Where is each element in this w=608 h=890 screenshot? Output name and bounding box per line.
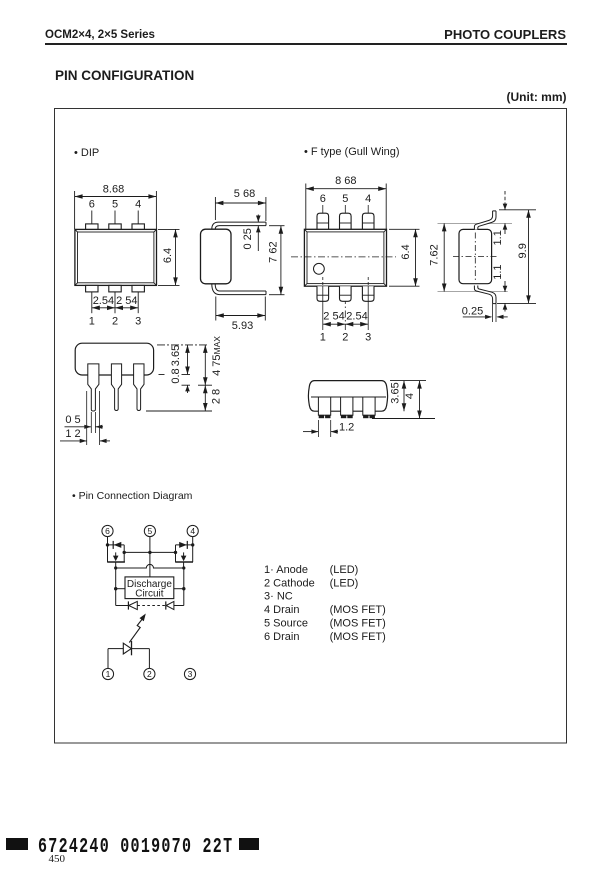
DIP profile pins [88, 364, 144, 411]
svg-text:5: 5 [148, 526, 153, 536]
ext lines behind leads (F side) [438, 223, 513, 291]
svg-text:• F type (Gull Wing): • F type (Gull Wing) [304, 146, 400, 158]
svg-text:1: 1 [320, 331, 326, 343]
F profile pins [318, 397, 375, 415]
svg-text:(MOS FET): (MOS FET) [330, 604, 386, 616]
svg-text:4 Drain: 4 Drain [264, 604, 299, 616]
node gate-bus left [114, 566, 117, 569]
node pin4 junction [191, 543, 194, 546]
svg-text:0.25: 0.25 [462, 306, 483, 318]
svg-text:2.54: 2.54 [93, 295, 114, 307]
svg-text:2 54: 2 54 [323, 311, 344, 323]
svg-text:4: 4 [365, 193, 371, 205]
svg-text:(LED): (LED) [330, 577, 359, 589]
svg-text:1· Anode: 1· Anode [264, 564, 308, 576]
horizontal centerline F [291, 256, 396, 258]
dim 2.54 2.54 DIP [92, 295, 138, 310]
dim 7.62 (F side) [429, 223, 447, 291]
pin centerlines F top [323, 205, 368, 243]
header right title [444, 27, 566, 42]
wire box right lead [174, 588, 184, 590]
svg-text:5 Source: 5 Source [264, 618, 308, 630]
body diode Q6 (cathode bar + arrow) [108, 541, 125, 549]
wire box left lead [116, 588, 125, 590]
F body [304, 229, 386, 286]
svg-text:2: 2 [112, 316, 118, 328]
seating plane line [372, 418, 435, 420]
svg-text:5: 5 [112, 199, 118, 211]
dim 0.8 (DIP profile) [159, 368, 191, 393]
svg-text:8 68: 8 68 [335, 175, 356, 187]
footer code text [38, 835, 233, 859]
F side centerlines [453, 233, 498, 281]
svg-text:5.93: 5.93 [232, 320, 253, 332]
wire LED cathode down [148, 649, 150, 669]
F side top gull lead [474, 211, 496, 230]
svg-text:6: 6 [89, 199, 95, 211]
dim 3.65 (F profile) [390, 381, 427, 412]
pin labels 6 5 4 (DIP) [89, 199, 142, 211]
node box right [182, 587, 185, 590]
vertical centerline F [344, 230, 346, 331]
dim 8.68 F [306, 175, 386, 229]
page number [49, 853, 66, 865]
photodiode P2 [166, 601, 184, 609]
svg-text:(MOS FET): (MOS FET) [330, 618, 386, 630]
svg-text:2.54: 2.54 [346, 311, 367, 323]
label F type (Gull Wing) [304, 146, 400, 158]
svg-text:4: 4 [135, 199, 141, 211]
pin 2 terminal circle [144, 668, 155, 679]
dim 6.4 DIP [158, 229, 180, 285]
svg-text:5: 5 [342, 193, 348, 205]
footer code block right [239, 838, 259, 850]
svg-text:3: 3 [365, 331, 371, 343]
node gate-bus right [182, 566, 185, 569]
F profile body [308, 381, 387, 412]
svg-text:0 5: 0 5 [65, 414, 80, 426]
svg-text:• DIP: • DIP [74, 147, 99, 159]
unit note [507, 90, 567, 104]
node box left [114, 587, 117, 590]
dim 2.8 (DIP profile) [146, 385, 223, 411]
svg-text:7 62: 7 62 [268, 241, 280, 262]
svg-text:1: 1 [89, 316, 95, 328]
label DIP [74, 147, 99, 159]
body (DIP side) [201, 229, 232, 284]
svg-text:3.65: 3.65 [390, 382, 402, 403]
svg-text:• Pin Connection Diagram: • Pin Connection Diagram [72, 490, 193, 502]
label Pin Connection Diagram [72, 490, 193, 502]
svg-text:(MOS FET): (MOS FET) [330, 631, 386, 643]
F profile body front edge [311, 396, 386, 398]
dim 7.62 (DIP side) [268, 226, 285, 295]
pin centerlines F bottom [323, 277, 368, 330]
svg-text:0 25: 0 25 [242, 228, 254, 249]
node bus-center pin5 [148, 551, 151, 554]
svg-text:3.65: 3.65 [170, 345, 182, 366]
dims 0.5 / 1.2 (DIP profile) [60, 391, 110, 445]
svg-text:6 Drain: 6 Drain [264, 631, 299, 643]
pin 4 terminal circle [187, 525, 198, 536]
dim 4 (F profile) [404, 381, 422, 419]
footer code block left [6, 838, 28, 850]
svg-text:1.1: 1.1 [492, 230, 504, 245]
header rule [45, 43, 567, 45]
discharge circuit box [125, 577, 174, 600]
body diode Q4 (cathode bar + arrow) [176, 541, 193, 549]
wire pin4 down [192, 537, 194, 545]
svg-text:9.9: 9.9 [517, 243, 529, 258]
gate bus wire with hop [116, 564, 184, 568]
dim 2.54 2.54 F [323, 311, 368, 327]
mosfet Q6 [107, 545, 125, 568]
pin labels 1 2 3 (F) [320, 331, 372, 343]
svg-text:6: 6 [320, 193, 326, 205]
svg-text:3· NC: 3· NC [264, 591, 293, 603]
svg-text:6.4: 6.4 [162, 248, 174, 263]
pin 3 terminal circle [184, 668, 195, 679]
top lead (DIP side) [212, 222, 266, 229]
svg-text:0.8: 0.8 [170, 368, 182, 383]
bottom gull pins F [317, 286, 374, 301]
dim 1.1 top (F side) [492, 191, 536, 245]
dim 4.75MAX (DIP profile) [198, 336, 223, 385]
svg-text:2: 2 [147, 669, 152, 679]
svg-text:5 68: 5 68 [234, 188, 255, 200]
F side bottom gull lead [474, 286, 496, 304]
pin1 marker circle [314, 263, 325, 274]
bottom lead (DIP side) [212, 284, 266, 295]
svg-text:1: 1 [106, 669, 111, 679]
svg-text:2 Cathode: 2 Cathode [264, 577, 315, 589]
wire left drop [115, 568, 117, 606]
svg-text:2 54: 2 54 [116, 295, 137, 307]
pin 5 terminal circle [144, 525, 155, 536]
svg-text:Circuit: Circuit [135, 589, 164, 600]
svg-text:2 8: 2 8 [211, 389, 223, 404]
svg-text:3: 3 [135, 316, 141, 328]
dim 3.65 (DIP profile) [157, 345, 207, 375]
svg-text:3: 3 [188, 669, 193, 679]
bottom pin shoulders DIP [86, 285, 145, 292]
dim 9.9 (F side) [517, 210, 531, 304]
svg-text:4: 4 [190, 526, 195, 536]
outer frame box [55, 109, 567, 744]
top leads DIP [92, 211, 138, 225]
dim 8.68 DIP [75, 184, 157, 230]
pin labels 1 2 3 (DIP) [89, 316, 142, 328]
dim 5.68 [215, 188, 266, 221]
wire pin6 down [107, 537, 109, 545]
section heading [55, 68, 194, 83]
DIP profile body [75, 343, 153, 375]
svg-text:1.1: 1.1 [492, 264, 504, 279]
svg-text:(LED): (LED) [330, 564, 359, 576]
svg-text:1 2: 1 2 [65, 428, 80, 440]
F side body [459, 229, 492, 283]
pin 6 terminal circle [102, 525, 113, 536]
svg-text:8.68: 8.68 [103, 184, 124, 196]
header series title [45, 29, 155, 41]
dim 1.1 bottom (F side) [492, 264, 536, 311]
DIP body [75, 229, 157, 285]
node bus-right [174, 551, 177, 554]
photodiode P1 [116, 601, 138, 609]
pin function list [264, 564, 386, 643]
pin 1 terminal circle [102, 668, 113, 679]
dim 0.25 (DIP side) [242, 215, 261, 252]
svg-text:6: 6 [105, 526, 110, 536]
svg-text:6.4: 6.4 [400, 244, 412, 259]
dim 1.2 (F profile) [303, 420, 354, 437]
light coupling arrow [129, 614, 146, 643]
pin labels 6 5 4 (F) [320, 193, 372, 205]
svg-text:4 75MAX: 4 75MAX [211, 336, 223, 376]
svg-text:1.2: 1.2 [339, 422, 354, 434]
F profile pin feet [319, 415, 375, 418]
wire right drop [183, 568, 185, 606]
wire LED anode down [107, 649, 109, 669]
top gull pins F [317, 213, 374, 229]
svg-text:7.62: 7.62 [429, 244, 441, 265]
source bus wire [124, 551, 175, 553]
svg-text:4: 4 [404, 393, 416, 399]
bottom leads / ext lines DIP [92, 292, 138, 313]
LED D1 [108, 641, 149, 655]
dim 5.93 [216, 297, 265, 333]
wire pin5 down [149, 537, 151, 577]
node bus-left [123, 551, 126, 554]
dim 0.25 (F side) [462, 304, 508, 322]
top pin shoulders DIP [86, 224, 145, 230]
svg-text:2: 2 [342, 331, 348, 343]
node pin6 junction [106, 543, 109, 546]
dashed gate wire [137, 605, 166, 607]
dim 6.4 F [389, 229, 420, 286]
mosfet Q4 [175, 545, 193, 568]
